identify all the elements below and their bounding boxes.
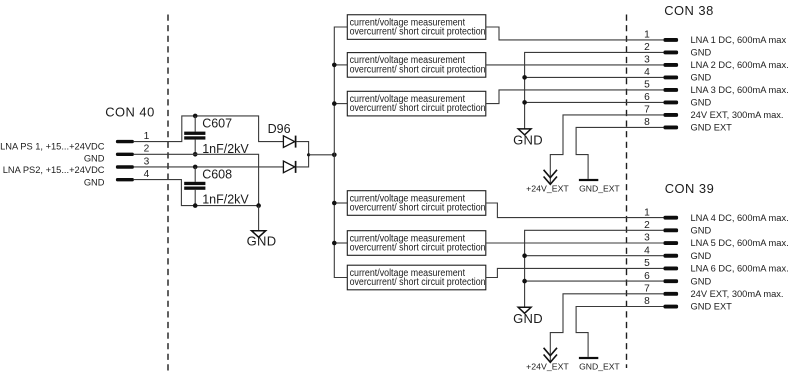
svg-text:CON 39: CON 39 bbox=[665, 181, 715, 196]
svg-text:overcurrent/ short circuit pro: overcurrent/ short circuit protection bbox=[350, 203, 486, 214]
wire CON38 pin4 bbox=[525, 76, 664, 78]
svg-text:LNA 2 DC, 600mA max.: LNA 2 DC, 600mA max. bbox=[691, 60, 789, 70]
svg-text:GND: GND bbox=[691, 226, 712, 236]
CON 38 pin 5 bbox=[644, 80, 678, 92]
svg-text:CON 38: CON 38 bbox=[664, 3, 714, 18]
svg-text:4: 4 bbox=[144, 169, 150, 180]
svg-text:overcurrent/ short circuit pro: overcurrent/ short circuit protection bbox=[350, 27, 486, 38]
wire CON39 pin6 bbox=[525, 280, 664, 282]
wire CON39 GND bus bbox=[525, 230, 664, 307]
capacitor C607 bbox=[184, 116, 205, 154]
CON 40 pin 4 bbox=[116, 169, 150, 181]
svg-text:1: 1 bbox=[644, 30, 650, 41]
CON 40 pin 3 bbox=[116, 156, 150, 168]
svg-text:LNA PS2, +15...+24VDC: LNA PS2, +15...+24VDC bbox=[3, 165, 105, 175]
wire box2 out to CON38 pin3 bbox=[486, 64, 664, 66]
svg-text:5: 5 bbox=[644, 80, 650, 91]
protection block U3 bbox=[347, 91, 486, 116]
diode D96 upper bbox=[283, 136, 295, 148]
ground GND_EXT (CON39) bbox=[579, 357, 620, 371]
wire box1 out to CON38 pin1 bbox=[486, 27, 664, 40]
CON 39 pin 3 bbox=[644, 233, 678, 245]
svg-text:24V EXT, 300mA max.: 24V EXT, 300mA max. bbox=[691, 110, 784, 120]
node diode OR junction bbox=[307, 153, 310, 156]
protection block U5 bbox=[347, 231, 486, 256]
svg-text:3: 3 bbox=[144, 156, 150, 167]
wire bus stub box3 bbox=[334, 103, 347, 105]
node bus box4 bbox=[332, 201, 337, 206]
svg-text:8: 8 bbox=[644, 296, 650, 307]
CON 39 pin 5 bbox=[644, 258, 678, 270]
svg-text:LNA PS 1, +15...+24VDC: LNA PS 1, +15...+24VDC bbox=[0, 141, 105, 151]
svg-text:GND_EXT: GND_EXT bbox=[579, 361, 620, 371]
ground GND_EXT (CON38) bbox=[579, 179, 620, 193]
svg-text:6: 6 bbox=[644, 92, 650, 103]
ground GND (left) bbox=[247, 231, 277, 249]
svg-text:3: 3 bbox=[644, 55, 650, 66]
svg-text:2: 2 bbox=[144, 144, 150, 155]
svg-text:overcurrent/ short circuit pro: overcurrent/ short circuit protection bbox=[350, 277, 486, 288]
svg-text:GND: GND bbox=[247, 234, 277, 249]
wire bus stub box4 bbox=[334, 202, 347, 204]
svg-text:3: 3 bbox=[644, 233, 650, 244]
svg-text:1nF/2kV: 1nF/2kV bbox=[202, 192, 249, 206]
svg-text:GND: GND bbox=[691, 98, 712, 108]
CON 38 pin 8 bbox=[644, 117, 678, 129]
svg-text:GND: GND bbox=[513, 311, 543, 326]
wire pin3 to lower diode bbox=[134, 166, 284, 168]
node C608 bottom junction bbox=[193, 203, 198, 208]
svg-text:GND: GND bbox=[691, 73, 712, 83]
wire bus stub box5 bbox=[334, 242, 347, 244]
wire CON38 pin6 bbox=[525, 101, 664, 103]
svg-text:overcurrent/ short circuit pro: overcurrent/ short circuit protection bbox=[350, 103, 486, 114]
node CON39 gnd pin6 bbox=[522, 279, 527, 284]
power +24V_EXT (CON38) bbox=[526, 170, 569, 194]
svg-text:1: 1 bbox=[644, 207, 650, 218]
svg-text:GND: GND bbox=[84, 177, 105, 187]
wire pin2 GND to bottom rail bbox=[134, 154, 259, 205]
node bus box5 bbox=[332, 241, 337, 246]
svg-text:D96: D96 bbox=[268, 122, 291, 136]
node CON38 gnd pin4 bbox=[522, 75, 527, 80]
svg-text:6: 6 bbox=[644, 271, 650, 282]
svg-text:LNA 6 DC, 600mA max.: LNA 6 DC, 600mA max. bbox=[691, 264, 789, 274]
node bus diode junction bbox=[332, 153, 337, 158]
wire bus stub box2 bbox=[334, 64, 347, 66]
svg-text:C608: C608 bbox=[202, 167, 232, 181]
svg-text:24V EXT, 300mA max.: 24V EXT, 300mA max. bbox=[691, 289, 784, 299]
wire pin1 to top rail bbox=[134, 116, 284, 142]
CON 39 pin 6 bbox=[644, 271, 678, 283]
CON 38 pin 7 bbox=[644, 105, 678, 117]
svg-text:GND: GND bbox=[513, 133, 543, 148]
CON 39 pin 7 bbox=[644, 284, 678, 296]
svg-text:overcurrent/ short circuit pro: overcurrent/ short circuit protection bbox=[350, 64, 486, 75]
node C607 top junction bbox=[193, 114, 198, 119]
svg-text:GND: GND bbox=[691, 276, 712, 286]
CON 39 pin 4 bbox=[644, 245, 678, 257]
node CON38 gnd pin6 bbox=[522, 100, 527, 105]
svg-text:2: 2 bbox=[644, 42, 650, 53]
wire lower diode cathode to junction bbox=[296, 155, 308, 167]
wire CON38 pin7 to +24V_EXT bbox=[550, 115, 663, 183]
diode D96 lower bbox=[283, 161, 295, 173]
wire CON39 pin7 to +24V_EXT bbox=[550, 294, 663, 361]
svg-text:GND_EXT: GND_EXT bbox=[579, 183, 620, 193]
power +24V_EXT (CON39) bbox=[526, 348, 569, 372]
wire junction to bus bbox=[309, 154, 335, 156]
wire box4 out to CON39 pin1 bbox=[486, 203, 664, 218]
CON 38 pin 4 bbox=[644, 67, 678, 79]
svg-text:2: 2 bbox=[644, 220, 650, 231]
wire box6 out to CON39 pin5 bbox=[486, 268, 664, 277]
dashed boundary line left bbox=[167, 15, 169, 372]
node GND rail junction bbox=[256, 203, 261, 208]
wire power bus vertical bbox=[334, 27, 347, 278]
wire pin4 GND to bottom rail bbox=[134, 180, 259, 206]
svg-text:GND: GND bbox=[691, 251, 712, 261]
wire to ground bbox=[258, 206, 260, 231]
wire CON38 pin8 to GND_EXT bbox=[576, 127, 663, 178]
svg-text:C607: C607 bbox=[202, 117, 232, 131]
CON 38 pin 6 bbox=[644, 92, 678, 104]
protection block U2 bbox=[347, 53, 486, 78]
capacitor C608 bbox=[184, 167, 205, 206]
node C607 bottom junction bbox=[193, 152, 198, 157]
svg-text:LNA 1 DC, 600mA max: LNA 1 DC, 600mA max bbox=[691, 35, 787, 45]
wire box3 out to CON38 pin5 bbox=[486, 90, 664, 104]
wire box5 out to CON39 pin3 bbox=[486, 242, 664, 244]
svg-text:+24V_EXT: +24V_EXT bbox=[526, 361, 569, 371]
svg-text:GND: GND bbox=[84, 154, 105, 164]
svg-text:overcurrent/ short circuit pro: overcurrent/ short circuit protection bbox=[350, 243, 486, 254]
node C608 top junction bbox=[193, 165, 198, 170]
dashed boundary line right bbox=[626, 15, 628, 369]
CON 39 pin 8 bbox=[644, 296, 678, 308]
CON 38 pin 2 bbox=[644, 42, 678, 54]
CON 38 pin 1 bbox=[644, 30, 678, 42]
svg-text:5: 5 bbox=[644, 258, 650, 269]
svg-text:+24V_EXT: +24V_EXT bbox=[526, 183, 569, 193]
ground GND (CON39) bbox=[513, 307, 543, 326]
wire upper diode cathode to junction bbox=[296, 142, 308, 155]
node bus box3 bbox=[332, 101, 337, 106]
wire CON39 pin4 bbox=[525, 255, 664, 257]
ground GND (CON38) bbox=[513, 129, 543, 148]
wire CON38 GND bus bbox=[525, 52, 664, 128]
svg-text:8: 8 bbox=[644, 117, 650, 128]
svg-text:1nF/2kV: 1nF/2kV bbox=[202, 142, 249, 156]
node CON39 gnd pin4 bbox=[522, 253, 527, 258]
CON 39 pin 2 bbox=[644, 220, 678, 232]
svg-text:1: 1 bbox=[144, 131, 150, 142]
svg-text:7: 7 bbox=[644, 105, 650, 116]
CON 40 pin 1 bbox=[116, 131, 150, 143]
svg-text:4: 4 bbox=[644, 245, 650, 256]
svg-text:LNA 3 DC, 600mA max.: LNA 3 DC, 600mA max. bbox=[691, 85, 789, 95]
svg-text:GND EXT: GND EXT bbox=[691, 302, 733, 312]
svg-text:7: 7 bbox=[644, 284, 650, 295]
svg-text:LNA 5 DC, 600mA max.: LNA 5 DC, 600mA max. bbox=[691, 238, 789, 248]
svg-text:LNA 4 DC, 600mA max.: LNA 4 DC, 600mA max. bbox=[691, 213, 789, 223]
svg-text:GND EXT: GND EXT bbox=[691, 123, 733, 133]
CON 38 pin 3 bbox=[644, 55, 678, 67]
CON 39 pin 1 bbox=[644, 207, 678, 219]
protection block U4 bbox=[347, 191, 486, 216]
svg-text:CON 40: CON 40 bbox=[105, 104, 155, 119]
node bus box2 bbox=[332, 63, 337, 68]
wire CON39 pin8 to GND_EXT bbox=[576, 307, 663, 357]
svg-text:4: 4 bbox=[644, 67, 650, 78]
CON 40 pin 2 bbox=[116, 144, 150, 156]
protection block U6 bbox=[347, 265, 486, 290]
svg-text:GND: GND bbox=[691, 48, 712, 58]
protection block U1 bbox=[347, 15, 486, 40]
